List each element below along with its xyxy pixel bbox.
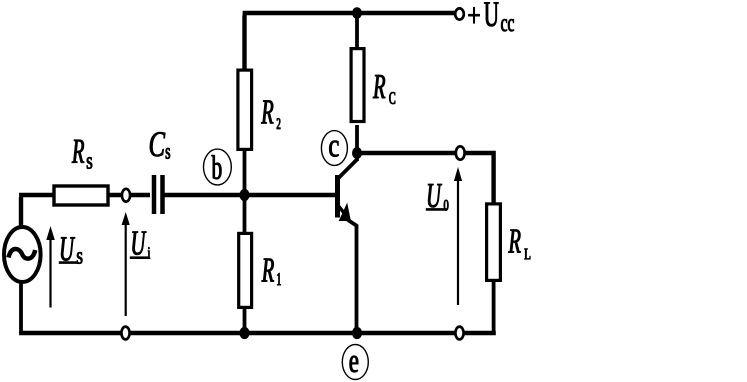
- emitter corner wire: [348, 220, 357, 333]
- resistor Rs: [54, 186, 108, 205]
- terminal Vcc: [455, 8, 464, 19]
- label +Ucc: [468, 2, 513, 31]
- arrow Uo: [454, 167, 462, 305]
- node e circle: [342, 345, 368, 380]
- label Us: [59, 237, 83, 263]
- resistor RL: [487, 204, 501, 281]
- node junction top rail: [352, 7, 362, 19]
- wire bottom rail: [19, 331, 496, 335]
- node b circle: [204, 149, 232, 185]
- wire RL bottom: [492, 280, 496, 333]
- resistor RC: [351, 49, 364, 122]
- label RC: [373, 75, 395, 104]
- resistor R1: [239, 233, 252, 307]
- label R2: [261, 100, 280, 128]
- wire Vcc drop to RC: [355, 13, 359, 48]
- terminal output top: [456, 146, 465, 159]
- label Uo: [426, 184, 449, 210]
- collector stroke: [338, 159, 358, 179]
- capacitor Cs: [154, 175, 163, 214]
- label RL: [508, 230, 530, 260]
- label Ui: [130, 232, 150, 259]
- emitter arrowhead: [339, 203, 351, 221]
- label Cs: [150, 132, 170, 159]
- wire source top to Rs: [19, 195, 53, 230]
- label Rs: [72, 140, 92, 169]
- emitter stroke: [338, 206, 344, 213]
- wire top rail: [243, 13, 455, 73]
- wire base: [164, 193, 336, 197]
- node b junction: [239, 189, 249, 201]
- label R1: [262, 259, 281, 285]
- node bottom left junction: [239, 327, 249, 339]
- terminal output bottom: [455, 327, 463, 340]
- transistor Q1: [338, 159, 358, 333]
- arrow Ui: [122, 212, 130, 316]
- wire Rs to capacitor: [108, 193, 150, 197]
- node c junction: [352, 147, 362, 159]
- node c circle: [321, 131, 347, 166]
- wire R1 to bottom rail: [243, 308, 247, 333]
- AC source: [4, 227, 41, 282]
- resistor R2: [238, 70, 252, 149]
- wire R2 to R1 through node b: [243, 150, 247, 232]
- node e junction: [352, 327, 362, 339]
- arrow Us: [46, 226, 55, 308]
- base bar: [335, 175, 340, 218]
- terminal input bottom: [121, 327, 129, 340]
- terminal input top: [122, 189, 130, 202]
- wire output top: [357, 151, 496, 205]
- wire RC bottom to collector: [355, 125, 359, 161]
- wire source bottom: [19, 281, 23, 333]
